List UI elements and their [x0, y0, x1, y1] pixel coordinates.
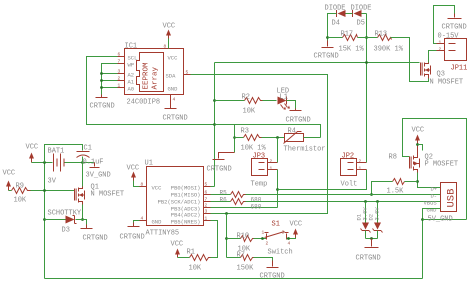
svg-text:2: 2 — [266, 241, 269, 247]
wire JP11 pin2 to Q3 drain — [429, 51, 437, 63]
wire VCC to U1 — [134, 181, 140, 187]
wire zener common — [366, 238, 378, 240]
svg-text:15K 1%: 15K 1% — [339, 46, 365, 54]
wire R13 to Q3 source loop — [391, 38, 429, 82]
svg-text:N MOSFET: N MOSFET — [430, 79, 464, 87]
wire battery top loop — [45, 145, 83, 163]
svg-text:7: 7 — [205, 197, 208, 203]
svg-text:VCC: VCC — [168, 55, 179, 62]
svg-text:R1: R1 — [187, 249, 195, 257]
wire PB0 vertical — [214, 63, 216, 187]
svg-text:A0: A0 — [128, 86, 135, 93]
svg-text:N MOSFET: N MOSFET — [91, 191, 125, 199]
svg-text:680: 680 — [251, 204, 262, 211]
svg-text:Thermistor: Thermistor — [284, 146, 326, 154]
junction ADC line — [365, 61, 368, 64]
svg-text:2: 2 — [205, 203, 208, 209]
svg-text:5V_GND: 5V_GND — [428, 216, 453, 224]
svg-text:Array: Array — [152, 66, 160, 89]
wire USB GND — [423, 209, 441, 279]
wire to R2 — [215, 100, 245, 102]
resistor R7 — [237, 252, 255, 273]
wire R8 right — [405, 181, 418, 183]
svg-text:P MOSFET: P MOSFET — [425, 161, 459, 169]
svg-text:D3: D3 — [62, 227, 70, 235]
svg-text:GND: GND — [152, 219, 163, 226]
ATTINY right pin names — [158, 185, 201, 226]
junction divider left — [326, 36, 329, 39]
wire to R7 — [227, 257, 241, 259]
svg-text:3.6V: 3.6V — [374, 207, 381, 221]
EEPROM GND pin stub — [170, 95, 172, 102]
svg-text:1: 1 — [262, 230, 265, 236]
wire R3 to R4 — [262, 137, 285, 139]
wire JP3 pin2 up to tap — [277, 138, 279, 163]
resistor R10 — [237, 233, 254, 254]
junction divider top — [365, 36, 368, 39]
svg-text:VCC: VCC — [3, 170, 16, 178]
svg-text:CRTGND: CRTGND — [90, 103, 115, 111]
svg-text:JP11: JP11 — [451, 65, 468, 73]
junction left bus D3 — [43, 218, 46, 221]
svg-text:10K: 10K — [189, 265, 202, 273]
svg-text:CRTGND: CRTGND — [314, 53, 339, 61]
svg-text:BAT1: BAT1 — [48, 148, 65, 156]
ground CRTGND tap on loop — [207, 153, 235, 174]
svg-text:PB4(ADC2): PB4(ADC2) — [171, 212, 201, 219]
junction battery left — [43, 161, 46, 164]
svg-text:VCC: VCC — [26, 144, 39, 152]
switch S1 — [262, 221, 293, 257]
diode D4 — [325, 5, 346, 28]
svg-text:VCC: VCC — [163, 23, 176, 31]
wire D3 row — [45, 220, 87, 225]
wire divider ground branch — [234, 125, 236, 153]
junction S1 right — [287, 237, 290, 240]
svg-text:4: 4 — [141, 216, 144, 222]
transistor Q3 — [421, 63, 464, 87]
svg-text:CRTGND: CRTGND — [207, 166, 232, 174]
svg-text:10K: 10K — [14, 197, 27, 205]
ground CRTGND zeners — [356, 239, 381, 263]
svg-text:24C0DIP8: 24C0DIP8 — [127, 99, 161, 107]
connector JP11 — [437, 33, 468, 73]
svg-text:3V: 3V — [48, 178, 57, 186]
wire to R17 — [328, 37, 343, 39]
wire diode chain — [328, 14, 367, 41]
svg-text:WP: WP — [128, 62, 135, 69]
connector JP3 — [251, 153, 278, 189]
svg-text:1: 1 — [205, 216, 208, 222]
svg-text:R10: R10 — [237, 233, 250, 241]
wire cap bottom — [82, 157, 84, 163]
diode D5 — [351, 5, 372, 28]
junction JP3 tap — [276, 136, 279, 139]
LED L1 — [277, 88, 291, 110]
wire gnd to right frame — [423, 219, 467, 221]
wire Q2 gate to ground frame — [403, 119, 467, 220]
wire net SCL from EEPROM to left bus — [87, 57, 215, 125]
svg-text:PB2(SCK/ADC1): PB2(SCK/ADC1) — [158, 199, 201, 206]
VCC symbol above Q2 — [412, 127, 425, 145]
wire JP3 pin1 down — [277, 170, 279, 208]
VCC symbol at S1 — [290, 221, 303, 238]
wire volt tap to JP2 — [278, 170, 367, 190]
wire USB VBUS line — [246, 201, 441, 203]
svg-text:A2: A2 — [128, 72, 135, 79]
svg-text:VCC: VCC — [152, 185, 163, 192]
wire to R10 — [227, 238, 241, 240]
junction R3 left — [233, 136, 236, 139]
VCC symbol above EEPROM — [163, 23, 176, 39]
wire VCC to R1 — [178, 257, 190, 259]
svg-text:680: 680 — [251, 197, 262, 204]
junction PB4 R10 branch — [225, 212, 228, 215]
VCC symbol at R9 — [3, 170, 16, 191]
svg-text:SDA: SDA — [166, 73, 177, 80]
wire R4 right — [304, 137, 321, 139]
VCC symbol at R1 — [171, 241, 184, 258]
VCC symbol left of U1 — [127, 165, 140, 181]
EEPROM right pin names — [166, 55, 179, 93]
svg-text:CRTGND: CRTGND — [442, 24, 467, 32]
resistor R2 — [242, 94, 263, 116]
svg-text:5: 5 — [205, 182, 208, 188]
wire PB3 to JP3 — [211, 207, 278, 209]
svg-text:DIODE: DIODE — [325, 5, 346, 13]
svg-text:R5: R5 — [220, 190, 228, 197]
EEPROM left pin numbers — [118, 52, 121, 89]
junction Q1 source — [81, 218, 84, 221]
wire Q1 source down — [82, 205, 84, 220]
junction R8 to Q2 drain — [416, 180, 419, 183]
svg-text:VBUS: VBUS — [424, 200, 438, 207]
svg-text:10K: 10K — [243, 108, 256, 116]
capacitor C1 — [77, 145, 104, 167]
svg-text:EEPROM: EEPROM — [143, 62, 151, 90]
svg-text:2: 2 — [270, 159, 273, 165]
ground CRTGND divider — [314, 41, 339, 61]
junction to R3 loop — [213, 123, 216, 126]
svg-text:IC1: IC1 — [125, 43, 138, 51]
wire battery rail — [32, 162, 95, 164]
wire JP11 pin1 to ground — [434, 6, 455, 44]
svg-text:ATTINY85: ATTINY85 — [146, 230, 180, 238]
svg-text:R7: R7 — [237, 252, 245, 260]
svg-text:VCC: VCC — [127, 165, 140, 173]
ground CRTGND under EEPROM address pins — [90, 95, 115, 111]
junction zener D2 — [376, 200, 379, 203]
wire VCC to EEPROM pin8 — [168, 39, 170, 49]
junction A1 — [100, 79, 103, 82]
resistor R8 — [387, 154, 405, 196]
wire PB5 to R1 — [211, 221, 218, 258]
svg-text:SCHOTTKY: SCHOTTKY — [48, 210, 82, 218]
svg-text:S1: S1 — [272, 221, 280, 229]
svg-text:CRTGND: CRTGND — [83, 235, 108, 243]
ATTINY pin stubs — [140, 187, 211, 221]
svg-text:GND: GND — [168, 86, 179, 93]
svg-text:8: 8 — [164, 44, 167, 50]
svg-text:CRTGND: CRTGND — [260, 273, 285, 281]
junction R8 on D- — [370, 193, 373, 196]
junction zener ground — [370, 237, 373, 240]
svg-text:D-: D- — [431, 193, 438, 200]
svg-text:D+: D+ — [431, 186, 438, 193]
svg-text:3: 3 — [282, 230, 285, 236]
EEPROM Array vertical text — [143, 62, 160, 90]
wire to thermistor loop — [215, 125, 321, 138]
svg-text:CRTGND: CRTGND — [286, 117, 311, 125]
ground 3V_GND — [86, 163, 111, 180]
svg-text:0-15V: 0-15V — [438, 33, 460, 41]
wire R17 to junction — [358, 37, 378, 39]
svg-text:C1: C1 — [84, 145, 92, 153]
connector JP2 — [341, 153, 367, 189]
junction to R2 — [213, 99, 216, 102]
svg-text:2: 2 — [359, 159, 362, 165]
svg-text:USB: USB — [446, 189, 458, 208]
wire R9 to Q1 gate — [9, 190, 75, 192]
IC U1 ATTINY85 box — [147, 167, 204, 226]
svg-text:SCL: SCL — [128, 55, 138, 62]
battery BAT1 — [48, 148, 65, 186]
svg-text:CRTGND: CRTGND — [120, 234, 145, 242]
svg-text:10K 1%: 10K 1% — [241, 145, 267, 153]
EEPROM left pin stubs — [118, 57, 125, 88]
zener D2 — [368, 202, 383, 239]
svg-text:R9: R9 — [16, 183, 24, 191]
resistor R9 — [12, 183, 31, 205]
svg-text:3: 3 — [205, 209, 208, 215]
svg-text:D4: D4 — [332, 20, 340, 28]
VCC symbol top left battery — [26, 144, 39, 163]
junction USB gnd bus — [421, 218, 424, 221]
resistor R13 — [374, 31, 404, 54]
svg-text:0.1uF: 0.1uF — [83, 159, 104, 167]
svg-text:2: 2 — [118, 76, 121, 82]
svg-text:2: 2 — [439, 47, 442, 53]
svg-text:VCC: VCC — [412, 127, 425, 135]
junction volt wire — [276, 188, 279, 191]
svg-text:R2: R2 — [242, 94, 250, 102]
svg-text:PB5(NRES): PB5(NRES) — [171, 219, 201, 226]
wire R3 left — [235, 137, 244, 139]
transistor Q1 — [75, 184, 125, 205]
EEPROM SDA pin stub — [184, 74, 191, 76]
svg-text:7: 7 — [118, 59, 121, 65]
junction zener D1 — [364, 200, 367, 203]
svg-text:R13: R13 — [375, 31, 388, 39]
svg-text:Q3: Q3 — [437, 71, 445, 79]
wire PB1 to R5 — [211, 194, 231, 196]
svg-text:PB0(MOSI): PB0(MOSI) — [171, 185, 201, 192]
wire Q2 drain down to USB D+ — [418, 173, 441, 188]
junction S1 left — [261, 237, 264, 240]
svg-text:1: 1 — [359, 166, 362, 172]
svg-text:JP3: JP3 — [253, 153, 266, 161]
svg-text:6: 6 — [205, 190, 208, 196]
ATTINY left pin names — [152, 185, 163, 226]
IC1 EEPROM outer box — [125, 49, 184, 95]
thermistor R4 — [284, 128, 326, 154]
svg-text:GND: GND — [427, 207, 438, 214]
resistor R6 — [220, 197, 262, 211]
junction A0 — [100, 86, 103, 89]
svg-text:Switch: Switch — [268, 249, 293, 257]
svg-text:Volt: Volt — [341, 181, 358, 189]
junction gate bus — [43, 189, 46, 192]
svg-text:3: 3 — [118, 69, 121, 75]
transistor Q2 P MOSFET — [410, 146, 459, 173]
svg-text:R8: R8 — [389, 154, 397, 162]
EEPROM left pin names — [128, 55, 138, 93]
wire USB D- line — [246, 194, 441, 196]
junction Q2 source VCC — [416, 143, 419, 146]
svg-text:JP2: JP2 — [342, 153, 355, 161]
svg-text:1: 1 — [439, 40, 442, 46]
wire Q2 bulk hook — [418, 145, 423, 151]
wire R10 to S1 — [254, 238, 267, 240]
wire R7 to ground — [254, 258, 273, 261]
resistor R5 — [220, 190, 262, 204]
zener D1 — [356, 202, 371, 239]
wire R8 left to D- line — [372, 182, 393, 195]
svg-text:VCC: VCC — [171, 241, 184, 249]
ground CRTGND under U1 — [120, 223, 145, 242]
svg-text:1: 1 — [270, 166, 273, 172]
svg-text:1: 1 — [118, 83, 121, 89]
svg-text:390K 1%: 390K 1% — [374, 46, 404, 54]
wire R2 to LED — [263, 100, 277, 102]
svg-text:R4: R4 — [288, 128, 296, 136]
ATTINY pin numbers — [141, 182, 208, 222]
wire R10/R7 vertical — [226, 214, 228, 258]
svg-text:D5: D5 — [357, 20, 365, 28]
resistor R3 — [241, 128, 267, 153]
wire left bus vertical — [44, 163, 46, 279]
ground CRTGND top right — [442, 14, 467, 32]
svg-text:CRTGND: CRTGND — [356, 255, 381, 263]
junction cap bottom — [81, 161, 84, 164]
ground CRTGND under EEPROM — [163, 102, 188, 123]
wire bottom ground bus — [45, 278, 423, 280]
svg-text:VCC: VCC — [290, 221, 303, 229]
svg-text:R17: R17 — [341, 31, 354, 39]
svg-text:CRTGND: CRTGND — [163, 115, 188, 123]
connector USB — [424, 183, 458, 214]
wire WP/A2/A1/A0 ground chain — [102, 64, 125, 95]
resistor R17 — [339, 31, 365, 54]
svg-text:R6: R6 — [220, 197, 228, 204]
wire Q1 drain up — [82, 163, 84, 187]
wire PB2 to R6 — [211, 201, 231, 203]
svg-text:PB1(MISO): PB1(MISO) — [171, 192, 201, 199]
EEPROM inner array block — [137, 53, 164, 92]
resistor R1 — [187, 249, 211, 273]
wire SDA to PB4 — [191, 75, 328, 214]
diode D3 schottky — [48, 210, 82, 235]
junction R10 — [225, 237, 228, 240]
svg-text:3V_GND: 3V_GND — [86, 172, 111, 180]
ground CRTGND under LED — [286, 109, 311, 125]
wire JP2 pin2 measurement vertical — [366, 14, 368, 163]
svg-text:8: 8 — [141, 182, 144, 188]
junction A2 — [100, 72, 103, 75]
svg-text:R3: R3 — [241, 128, 249, 136]
svg-text:U1: U1 — [145, 160, 153, 168]
wire PB0 pin — [211, 186, 215, 188]
svg-text:A1: A1 — [128, 79, 135, 86]
wire PB0 to Q3 gate (y62) — [215, 62, 420, 64]
svg-text:6: 6 — [118, 52, 121, 58]
svg-text:DIODE: DIODE — [351, 5, 372, 13]
svg-text:4: 4 — [173, 97, 176, 103]
svg-text:4: 4 — [288, 241, 291, 247]
wire LED to ground — [287, 101, 296, 109]
svg-text:Temp: Temp — [251, 181, 268, 189]
wire S1 to VCC — [287, 238, 296, 239]
ground CRTGND at Q1 source — [81, 225, 108, 243]
ground CRTGND at R7 — [260, 261, 285, 281]
svg-text:150K: 150K — [237, 265, 255, 273]
wire U1 GND — [134, 221, 140, 223]
